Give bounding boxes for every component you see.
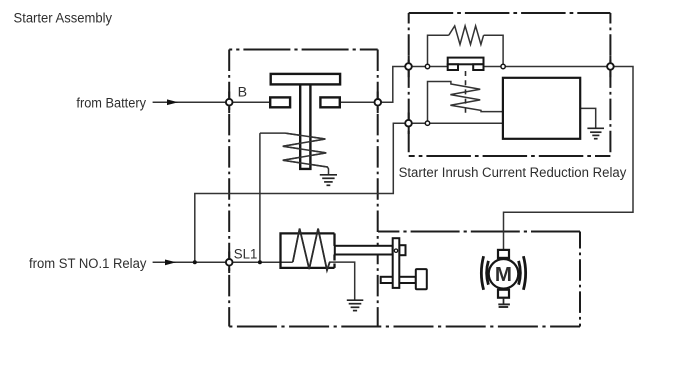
svg-text:from ST NO.1 Relay: from ST NO.1 Relay <box>29 256 147 272</box>
svg-text:from Battery: from Battery <box>76 96 146 112</box>
svg-text:Starter Inrush Current Reducti: Starter Inrush Current Reduction Relay <box>399 165 628 181</box>
svg-text:SL1: SL1 <box>234 246 258 262</box>
svg-text:Starter Assembly: Starter Assembly <box>14 11 113 27</box>
svg-text:B: B <box>238 85 247 101</box>
svg-text:M: M <box>495 263 512 286</box>
